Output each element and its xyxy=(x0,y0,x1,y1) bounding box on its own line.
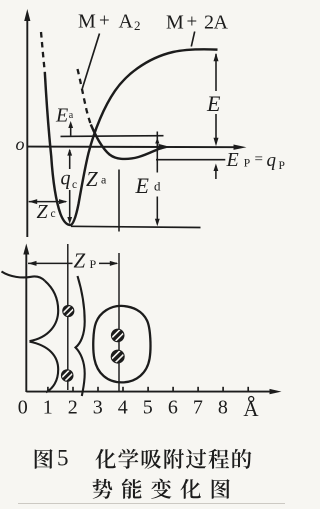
svg-text:6: 6 xyxy=(168,397,178,419)
pointer line from M+2A label to curve xyxy=(191,32,194,47)
svg-text:2: 2 xyxy=(134,18,141,33)
svg-text:3: 3 xyxy=(93,397,103,419)
E_d dimension line with down arrow xyxy=(155,132,160,227)
x-axis numerals 0-8 xyxy=(18,397,228,419)
q_c dimension arrow (heat of chemisorption) xyxy=(67,149,72,224)
svg-text:Z: Z xyxy=(74,249,86,273)
svg-text:8: 8 xyxy=(218,397,228,419)
svg-text:q: q xyxy=(267,150,277,171)
svg-text:+: + xyxy=(187,12,198,33)
svg-text:q: q xyxy=(61,168,71,190)
svg-text:o: o xyxy=(16,134,25,154)
Z_a position vertical line (upper part) xyxy=(118,170,120,232)
svg-text:0: 0 xyxy=(18,397,28,419)
lower diagram vertical axis with up arrow xyxy=(23,244,29,393)
curve M+A2 (physisorption): dashed descending branch xyxy=(78,69,91,125)
svg-text:A: A xyxy=(214,12,229,34)
physisorption level line xyxy=(156,159,225,161)
svg-text:d: d xyxy=(154,179,161,194)
Z_P dimension arrow xyxy=(28,261,118,266)
svg-text:+: + xyxy=(99,11,110,32)
svg-text:M: M xyxy=(166,12,184,34)
svg-text:a: a xyxy=(69,110,74,121)
svg-text:7: 7 xyxy=(193,397,203,419)
small up arrow under physisorption line xyxy=(214,164,219,180)
svg-text:E: E xyxy=(206,91,221,116)
chemisorbed position vertical line xyxy=(67,244,69,390)
surface boundary curve (middle) xyxy=(76,276,85,396)
svg-text:M: M xyxy=(78,11,96,33)
curve M+2A solid main branch xyxy=(45,49,218,225)
x-axis (distance, Angstrom) xyxy=(26,389,281,394)
svg-text:2: 2 xyxy=(68,397,78,419)
curve M+2A (chemisorption, deep well): dashed upper-left tail xyxy=(41,32,45,72)
svg-text:4: 4 xyxy=(118,397,128,419)
svg-text:A: A xyxy=(243,397,259,421)
svg-text:P: P xyxy=(90,257,97,271)
svg-text:c: c xyxy=(51,208,56,220)
svg-text:=: = xyxy=(255,152,263,168)
y-axis (potential energy axis) xyxy=(24,9,30,237)
svg-text:1: 1 xyxy=(43,397,53,419)
svg-text:Z: Z xyxy=(37,201,49,223)
o-axis (zero energy line) with right arrowhead xyxy=(27,145,246,150)
svg-text:5: 5 xyxy=(143,397,153,419)
metal surface top wave xyxy=(2,272,45,281)
caption line 2: 势能变化图 xyxy=(93,479,113,499)
barrier crossing level line xyxy=(61,135,164,138)
chemisorption minimum level line xyxy=(71,226,201,227)
E dissociation-energy double arrow xyxy=(214,53,219,146)
svg-text:a: a xyxy=(101,173,107,187)
curve M+A2 shallow well branch with arrow end xyxy=(91,125,171,159)
svg-text:E: E xyxy=(226,149,239,171)
faint scan artifact line at bottom xyxy=(18,503,285,505)
Z_a / Z_P position vertical line (lower part) xyxy=(118,253,120,391)
x-axis tick marks xyxy=(48,387,248,392)
svg-text:c: c xyxy=(72,179,77,191)
pointer line from M+A2 label to dashed curve xyxy=(82,34,99,89)
metal surface atom bump 2 xyxy=(30,342,59,393)
svg-text:P: P xyxy=(244,158,250,170)
Z_c dimension arrow xyxy=(29,199,68,204)
svg-text:Z: Z xyxy=(86,167,98,191)
caption line 1: 图5 化学吸附过程的 xyxy=(35,449,53,469)
svg-text:A: A xyxy=(119,11,134,33)
svg-text:2: 2 xyxy=(204,12,214,34)
metal surface atom bump 1 xyxy=(30,281,59,341)
svg-text:E: E xyxy=(55,105,68,127)
svg-text:5: 5 xyxy=(57,446,69,471)
E_a arrow xyxy=(68,121,73,136)
physisorbed molecule big circle xyxy=(93,306,150,383)
svg-text:P: P xyxy=(279,160,285,172)
svg-text:E: E xyxy=(135,173,150,198)
Angstrom unit label xyxy=(243,397,259,422)
